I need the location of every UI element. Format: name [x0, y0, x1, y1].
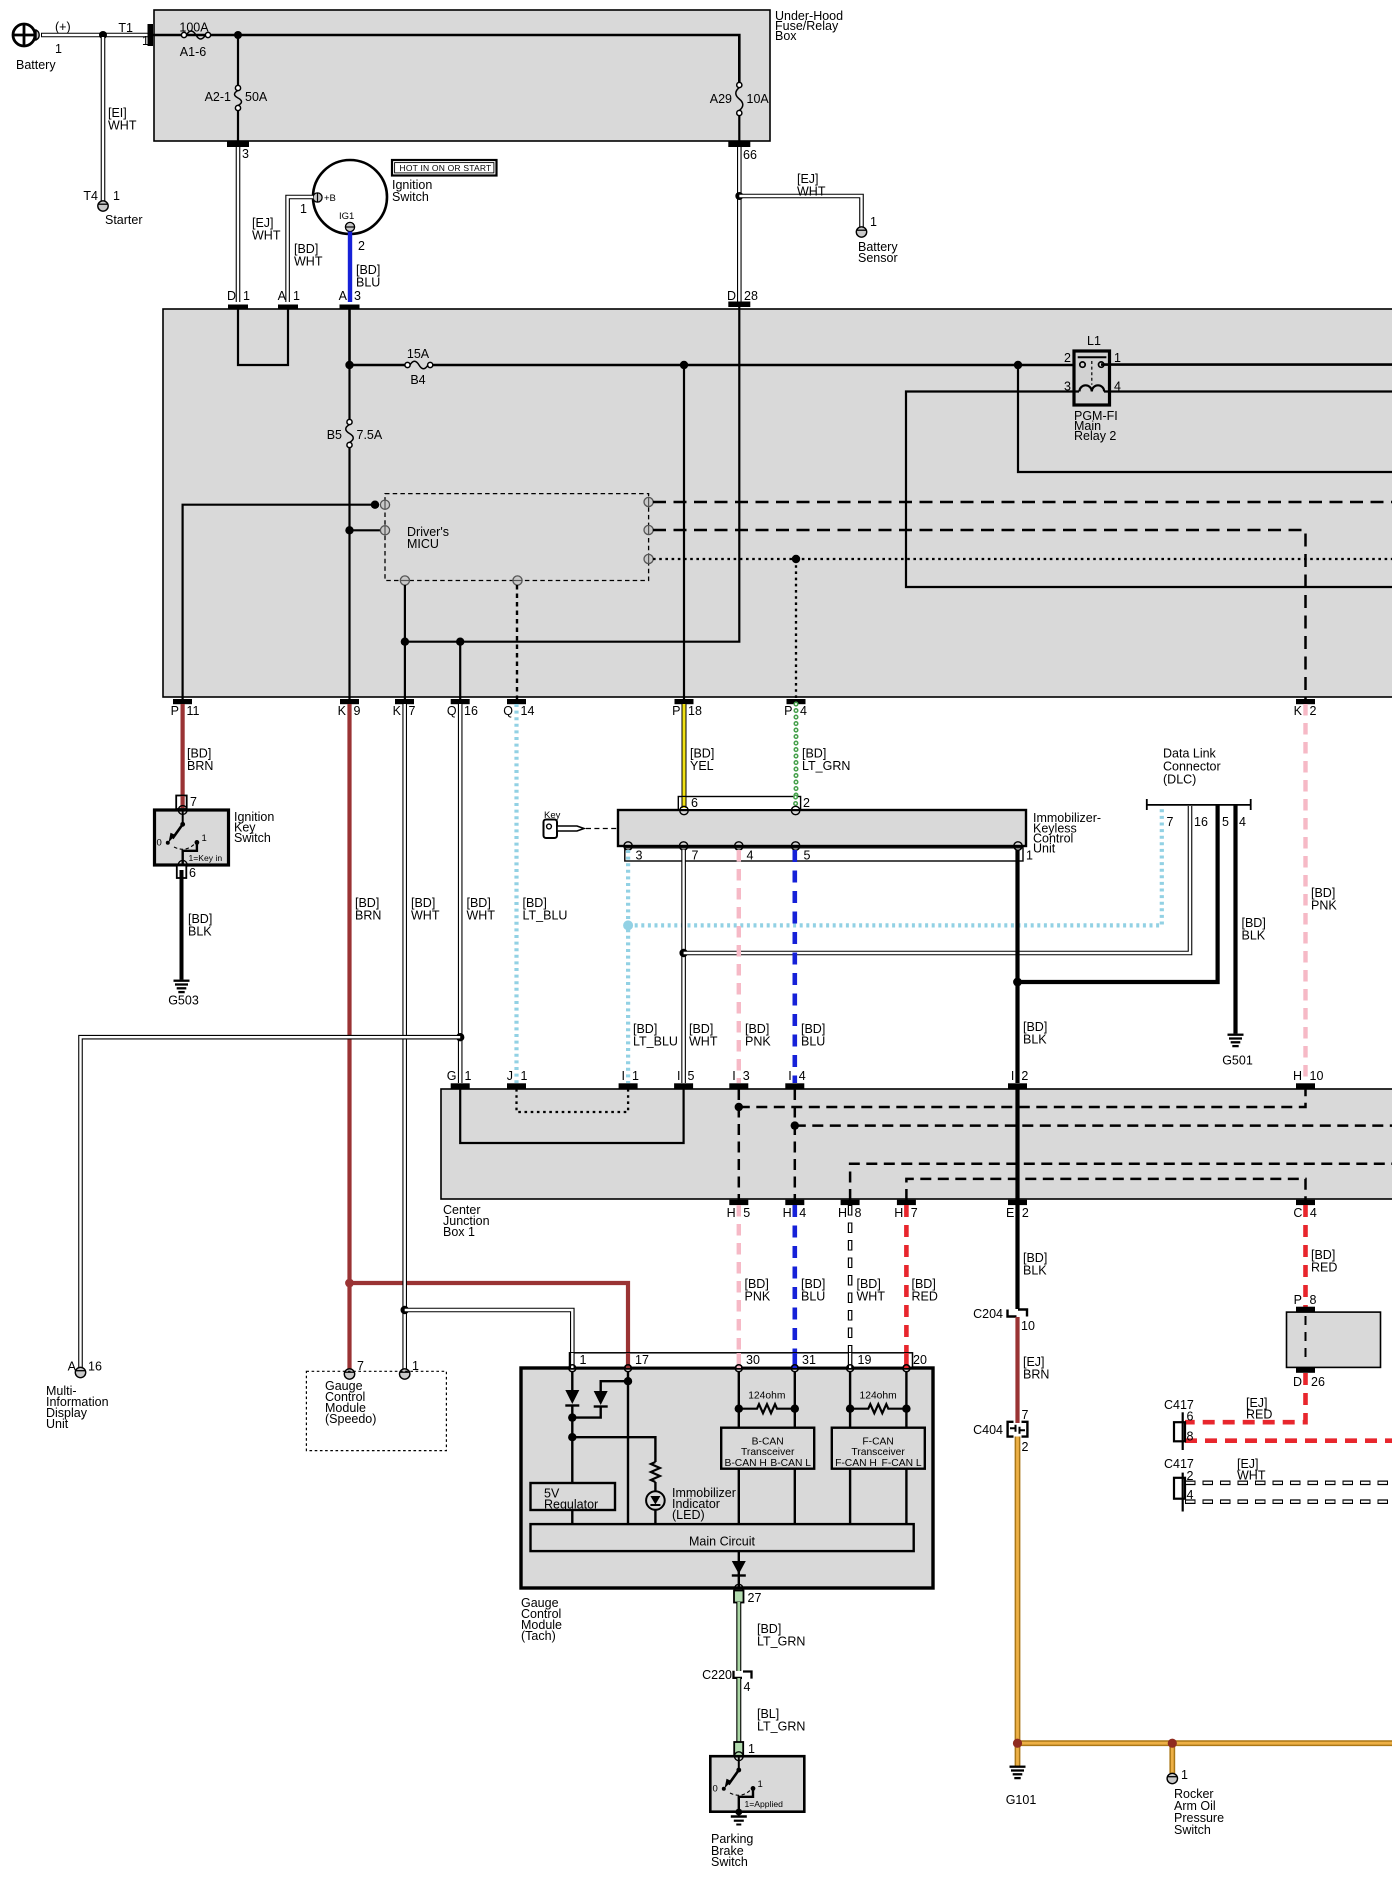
label [EJ] WHT (D1 wire): [252, 216, 281, 243]
MICU contact right 3: [644, 554, 653, 563]
svg-text:H: H: [838, 1206, 847, 1220]
svg-text:7: 7: [409, 704, 416, 718]
wire [EJ] BRN C204 to C404: [1018, 1317, 1050, 1423]
bus 15A row in box2: [350, 364, 1081, 367]
wire B-CAN L to main circuit: [794, 1469, 796, 1524]
relay L1 box: [1064, 334, 1121, 405]
svg-text:66: 66: [743, 148, 757, 162]
CJB internal dashed H7 to C4: [906, 1179, 1305, 1200]
key symbol: [544, 810, 585, 838]
svg-text:1: 1: [465, 1069, 472, 1083]
wire relay pin4 to right edge: [1104, 390, 1392, 392]
svg-text:10A: 10A: [747, 92, 770, 106]
dotted wire to P4: [795, 559, 797, 699]
wire [BD] WHT H8 to GCM pin19 (dashed white): [850, 1205, 885, 1368]
wire [EJ] RED C417 pin8 to right edge: [1185, 1438, 1392, 1443]
wire [BD] YEL P18 to immobilizer pin 6: [684, 704, 714, 797]
wire [BD] PNK H5 to GCM pin30: [739, 1205, 771, 1368]
svg-text:A1-6: A1-6: [180, 45, 206, 59]
svg-text:15A: 15A: [407, 347, 430, 361]
svg-text:11: 11: [187, 704, 200, 718]
MICU contact bottom 2: [513, 576, 522, 585]
gauge control module (tach) box: [521, 1368, 933, 1643]
svg-text:2: 2: [1022, 1206, 1029, 1220]
parking brake switch: [710, 1752, 804, 1812]
starter T4 terminal: [83, 189, 142, 227]
svg-text:+B: +B: [324, 193, 336, 204]
svg-text:6: 6: [189, 866, 196, 880]
connector H 8: [838, 1200, 862, 1220]
svg-text:100A: 100A: [179, 21, 209, 35]
wire [EJ] ORN C404 to G101: [1015, 1437, 1021, 1767]
hot in on or start box: [392, 160, 497, 176]
wire bus down through B5 fuse: [348, 365, 350, 419]
wire B-CAN H to main circuit: [738, 1469, 740, 1524]
main circuit box: [531, 1524, 914, 1551]
svg-text:RED: RED: [1246, 1408, 1272, 1422]
svg-text:19: 19: [858, 1353, 872, 1367]
GCM pin 17: [625, 1353, 649, 1372]
svg-text:BLU: BLU: [801, 1035, 825, 1049]
svg-text:BRN: BRN: [187, 759, 213, 773]
svg-text:7.5A: 7.5A: [357, 428, 383, 442]
GCM pin 1: [569, 1353, 587, 1372]
connector C417 (pins 2,4): [1164, 1457, 1194, 1511]
ignition switch: [313, 160, 432, 234]
svg-text:8: 8: [1187, 1429, 1194, 1443]
svg-text:B4: B4: [410, 373, 425, 387]
svg-text:1: 1: [142, 34, 149, 48]
5V regulator box: [531, 1483, 616, 1512]
svg-text:8: 8: [1310, 1293, 1317, 1307]
svg-text:PNK: PNK: [745, 1035, 771, 1049]
svg-text:P: P: [171, 704, 179, 718]
wire [BD] WHT immobilizer pin7 to I5: [684, 850, 718, 1083]
svg-text:8: 8: [855, 1206, 862, 1220]
svg-text:1: 1: [300, 202, 307, 216]
junction K7/D28 row: [401, 638, 409, 646]
wire [BD] BRN P11 to ignition key switch: [183, 704, 214, 796]
svg-text:C204: C204: [973, 1307, 1003, 1321]
junction pin17/diode2: [624, 1377, 632, 1385]
svg-text:LT_GRN: LT_GRN: [757, 1720, 805, 1734]
B-CAN transceiver box: [721, 1428, 814, 1469]
svg-text:4: 4: [799, 1069, 806, 1083]
svg-text:Box 1: Box 1: [443, 1225, 475, 1239]
svg-text:124ohm: 124ohm: [859, 1391, 896, 1402]
svg-text:WHT: WHT: [411, 909, 440, 923]
relay coil: [1079, 385, 1104, 391]
connector C220: [702, 1668, 751, 1694]
svg-text:K: K: [338, 704, 347, 718]
svg-text:Q: Q: [503, 704, 513, 718]
wire LT_BLU horizontal to DLC pin 7: [628, 805, 1162, 925]
svg-text:Box: Box: [775, 29, 797, 43]
svg-text:B-CAN H: B-CAN H: [725, 1458, 767, 1469]
svg-text:LT_GRN: LT_GRN: [757, 1635, 805, 1649]
immobilizer bottom connector strip: [625, 848, 1023, 861]
relay label: [1074, 409, 1118, 443]
diode D2: [594, 1391, 608, 1407]
fuse B5 7.5A: [327, 419, 383, 447]
GCM wire pin17 down: [627, 1372, 629, 1524]
svg-text:2: 2: [1310, 704, 1317, 718]
svg-text:1=Applied: 1=Applied: [745, 1799, 784, 1809]
immobilizer pin 1: [1014, 842, 1033, 863]
svg-text:6: 6: [691, 796, 698, 810]
svg-text:A: A: [339, 289, 348, 303]
svg-text:G501: G501: [1222, 1053, 1253, 1067]
svg-text:C404: C404: [973, 1423, 1003, 1437]
immobilizer pin 3: [624, 842, 643, 863]
connector I 1: [619, 1069, 639, 1089]
svg-text:4: 4: [800, 704, 807, 718]
connector H 10: [1293, 1069, 1323, 1089]
svg-text:27: 27: [748, 1591, 762, 1605]
wire A2-1 to connector 3: [237, 110, 239, 142]
svg-text:1=Key in: 1=Key in: [189, 853, 223, 863]
wire WHT to DLC pin 16: [684, 806, 1190, 953]
wire A3 down to bus: [348, 309, 351, 365]
diode D1 (pin1): [565, 1390, 579, 1406]
svg-text:1: 1: [293, 289, 300, 303]
CJB internal dashed branch to H10: [739, 1089, 1306, 1107]
svg-text:Battery: Battery: [16, 58, 56, 72]
svg-text:WHT: WHT: [252, 229, 281, 243]
svg-text:2: 2: [1021, 1069, 1028, 1083]
speedo pin 7 terminal: [344, 1359, 364, 1379]
svg-text:Starter: Starter: [105, 213, 143, 227]
svg-text:RED: RED: [1311, 1261, 1337, 1275]
parking brake switch ground: [731, 1809, 747, 1825]
svg-text:Switch: Switch: [711, 1855, 748, 1869]
svg-text:HOT IN ON OR START: HOT IN ON OR START: [400, 163, 492, 173]
connector H 5: [727, 1200, 751, 1220]
svg-text:2: 2: [803, 796, 810, 810]
junction orange G101: [1013, 1739, 1022, 1748]
svg-text:L1: L1: [1087, 334, 1101, 348]
svg-text:H: H: [783, 1206, 792, 1220]
svg-text:10: 10: [1021, 1319, 1035, 1333]
CJB internal dotted J1 to I1: [517, 1089, 629, 1112]
label [BD] BLU: [356, 263, 380, 290]
svg-text:1: 1: [243, 289, 250, 303]
label [EJ] WHT (battery sensor): [797, 172, 826, 199]
svg-text:4: 4: [1310, 1206, 1317, 1220]
svg-text:1: 1: [758, 1779, 763, 1790]
svg-text:7: 7: [1022, 1408, 1029, 1422]
svg-text:1: 1: [55, 42, 62, 56]
svg-text:1: 1: [632, 1069, 639, 1083]
svg-text:D: D: [727, 289, 736, 303]
connector T1: [118, 21, 153, 48]
wire B5 to K9: [348, 448, 350, 700]
battery: [13, 24, 56, 72]
svg-text:0: 0: [713, 1784, 718, 1795]
wire diode D1 bottom down: [571, 1406, 573, 1484]
svg-text:Transceiver: Transceiver: [741, 1447, 795, 1458]
svg-text:B-CAN: B-CAN: [752, 1437, 784, 1448]
CJB internal dashed H8 to right edge: [850, 1164, 1392, 1200]
svg-text:BLU: BLU: [356, 276, 380, 290]
connector Q 14: [503, 699, 534, 718]
wire F-CAN H to main circuit: [849, 1469, 851, 1524]
svg-text:LT_GRN: LT_GRN: [802, 759, 850, 773]
connector H 4: [783, 1200, 807, 1220]
svg-text:(LED): (LED): [672, 1508, 705, 1522]
svg-text:3: 3: [242, 147, 249, 161]
svg-text:I: I: [677, 1069, 680, 1083]
immobilizer top connector strip: [678, 797, 800, 810]
svg-text:Q: Q: [447, 704, 457, 718]
connector I 3: [729, 1069, 749, 1089]
svg-text:T4: T4: [83, 189, 98, 203]
svg-text:26: 26: [1311, 1375, 1325, 1389]
wire orange horizontal to right edge: [1018, 1740, 1392, 1746]
rocker arm oil pressure switch pin 1: [1167, 1768, 1188, 1784]
svg-text:K: K: [1294, 704, 1303, 718]
wire BLK to DLC pin 5: [1018, 805, 1218, 982]
junction at MICU contact 1: [371, 501, 379, 509]
ignition key switch: [155, 806, 275, 870]
wire [BD] BLK immobilizer pin1 to I2: [1018, 850, 1048, 1083]
immobilizer pin 5: [791, 842, 810, 863]
MICU contact right 2: [644, 525, 653, 534]
wire [BD] WHT K7 down: [405, 704, 440, 1369]
diode (main circuit out): [732, 1561, 746, 1576]
wire battery to T1 (double white): [41, 33, 150, 38]
svg-text:4: 4: [799, 1206, 806, 1220]
svg-text:I: I: [622, 1069, 625, 1083]
connector G 1: [447, 1069, 472, 1089]
wire diode D2 bottom to junction: [572, 1407, 600, 1418]
wire [BD] LT_BLU Q14 to J1: [517, 704, 568, 1083]
wire bus junction to P18: [683, 365, 685, 699]
svg-text:K: K: [393, 704, 402, 718]
GCM top connector strip: [570, 1353, 913, 1368]
svg-text:(DLC): (DLC): [1163, 773, 1196, 787]
ignition switch IG1 terminal: [339, 211, 355, 232]
connector C404: [973, 1408, 1028, 1454]
GCM pin 20: [903, 1353, 927, 1372]
svg-text:2: 2: [1022, 1440, 1029, 1454]
svg-text:0: 0: [157, 838, 162, 849]
wire bus branch down and right: [1018, 365, 1392, 472]
svg-text:5: 5: [1222, 815, 1229, 829]
wire bus to A2-1 fuse: [237, 35, 239, 85]
immobilizer pin 6: [680, 796, 698, 815]
wire to multi-information display: [81, 1037, 461, 1367]
junction Q16 branch: [456, 638, 464, 646]
svg-text:7: 7: [692, 849, 699, 863]
wire +B to A1 (double white): [288, 197, 313, 302]
svg-text:16: 16: [1194, 815, 1208, 829]
junction I3/H10 dashed: [735, 1103, 743, 1111]
svg-text:G503: G503: [168, 994, 199, 1008]
svg-text:H: H: [727, 1206, 736, 1220]
small module box right (P8-D26): [1287, 1312, 1381, 1367]
wire 3 to D1 (double white): [236, 147, 241, 302]
F-CAN 124ohm resistor: [846, 1391, 911, 1414]
GCM wire pin20 down: [905, 1372, 907, 1428]
svg-text:YEL: YEL: [690, 759, 714, 773]
wire WHT branch to GCM pin1: [405, 1310, 573, 1368]
fuse A2-1 50A: [205, 85, 268, 110]
junction dotted to P4: [792, 555, 800, 563]
wire [BD] BLK to G503: [182, 870, 213, 980]
parking brake switch pin 1: [734, 1742, 755, 1756]
svg-text:Regulator: Regulator: [544, 1498, 598, 1512]
svg-text:WHT: WHT: [1237, 1469, 1266, 1483]
center junction box 1: [441, 1089, 1392, 1239]
svg-text:BRN: BRN: [355, 909, 381, 923]
GCM pin 30: [735, 1353, 760, 1372]
svg-text:31: 31: [802, 1353, 816, 1367]
svg-text:7: 7: [1167, 815, 1174, 829]
svg-text:F-CAN L: F-CAN L: [882, 1458, 922, 1469]
connector C 4: [1293, 1200, 1317, 1220]
svg-text:H: H: [1293, 1069, 1302, 1083]
svg-text:I: I: [788, 1069, 791, 1083]
wire [BD] LT_GRN P4 to immobilizer pin 2: [796, 704, 850, 797]
GCM wire pin1 down: [571, 1372, 573, 1390]
svg-text:WHT: WHT: [294, 255, 323, 269]
wire F-CAN L to main circuit: [905, 1469, 907, 1524]
B-CAN 124ohm resistor: [735, 1391, 799, 1414]
svg-text:P: P: [672, 704, 680, 718]
wire [BD] LT_BLU immobilizer pin3 to I1: [628, 850, 678, 1083]
svg-text:6: 6: [1187, 1409, 1194, 1423]
CJB internal dashed branch right (I4): [795, 1124, 1392, 1127]
speedo pin 1 terminal: [400, 1359, 420, 1379]
multi-information display pin A 16: [68, 1360, 102, 1378]
svg-text:H: H: [894, 1206, 903, 1220]
wire main circuit to pin 27: [738, 1551, 740, 1588]
immobilizer pin 7: [679, 842, 698, 863]
fuse 100A A1-6: [179, 21, 210, 60]
svg-text:18: 18: [688, 704, 702, 718]
dashed link key to immobilizer: [586, 828, 617, 830]
svg-text:Switch: Switch: [392, 190, 429, 204]
svg-text:RED: RED: [912, 1290, 938, 1304]
svg-text:BLK: BLK: [1023, 1264, 1047, 1278]
svg-text:(Speedo): (Speedo): [325, 1412, 376, 1426]
svg-text:T1: T1: [118, 21, 133, 35]
svg-text:Switch: Switch: [1174, 1823, 1211, 1837]
svg-text:Switch: Switch: [234, 831, 271, 845]
connector P 18: [672, 699, 702, 718]
svg-text:WHT: WHT: [467, 909, 496, 923]
wire to starter (double white): [101, 35, 106, 201]
dashed MICU output 2 to K2: [653, 530, 1306, 699]
svg-text:50A: 50A: [245, 90, 268, 104]
immobilizer-keyless control unit box: [618, 810, 1101, 856]
junction orange rocker arm: [1168, 1739, 1177, 1748]
resistor (LED series): [651, 1462, 660, 1482]
svg-text:Transceiver: Transceiver: [851, 1447, 905, 1458]
junction bus/P18: [680, 361, 688, 369]
wire to LED resistor: [572, 1437, 655, 1462]
svg-text:P: P: [784, 704, 792, 718]
wire to battery sensor (double white): [739, 196, 861, 227]
svg-text:3: 3: [743, 1069, 750, 1083]
svg-text:MICU: MICU: [407, 537, 439, 551]
ground G101: [1006, 1767, 1037, 1807]
connector K 7: [393, 699, 416, 718]
connector I 5: [674, 1069, 694, 1089]
svg-text:BLK: BLK: [188, 925, 212, 939]
svg-text:D: D: [227, 289, 236, 303]
connector I 4: [785, 1069, 805, 1089]
svg-text:5: 5: [804, 849, 811, 863]
wire [BD] LT_GRN pin 27 to C220: [739, 1602, 806, 1671]
MICU contact bottom 1: [400, 576, 409, 585]
junction starter branch: [99, 31, 107, 39]
GCM wire pin30 down: [738, 1372, 740, 1428]
svg-text:BLK: BLK: [1023, 1033, 1047, 1047]
connector E 2: [1006, 1200, 1029, 1220]
svg-text:PNK: PNK: [745, 1290, 771, 1304]
junction BLK to DLC pin5: [1013, 978, 1022, 987]
svg-text:9: 9: [354, 704, 361, 718]
wire MICU bottom1 to K7: [404, 585, 406, 699]
svg-text:A29: A29: [710, 92, 732, 106]
svg-text:Relay 2: Relay 2: [1074, 429, 1116, 443]
wire relay pin1 to right edge: [1101, 363, 1392, 366]
svg-text:30: 30: [746, 1353, 760, 1367]
svg-text:I: I: [1011, 1069, 1014, 1083]
svg-text:D: D: [1293, 1375, 1302, 1389]
wire [BD] BRN K9 down: [350, 704, 382, 1369]
connector K 2: [1294, 699, 1317, 718]
immobilizer pin 2: [791, 796, 810, 815]
GCM wire pin19 down: [849, 1372, 851, 1428]
svg-text:1: 1: [870, 215, 877, 229]
svg-text:4: 4: [744, 1680, 751, 1694]
rocker arm oil pressure switch label: [1174, 1787, 1224, 1837]
svg-text:Sensor: Sensor: [858, 251, 898, 265]
svg-text:I: I: [732, 1069, 735, 1083]
connector P 8: [1294, 1293, 1317, 1312]
svg-text:LT_BLU: LT_BLU: [523, 909, 568, 923]
CJB internal BLK I2 to E2: [1015, 1089, 1019, 1200]
svg-text:BRN: BRN: [1023, 1368, 1049, 1382]
wire [BD] PNK immobilizer pin4 to I3: [739, 850, 772, 1083]
junction B5 wire to MICU pin: [345, 526, 353, 534]
dotted MICU output 3: [653, 558, 1392, 560]
svg-text:A2-1: A2-1: [205, 90, 231, 104]
wire A29 to connector 66: [738, 115, 740, 142]
connector H 7: [894, 1200, 918, 1220]
immobilizer pin 4: [735, 842, 754, 863]
svg-text:28: 28: [744, 289, 758, 303]
wire [BD] BLU H4 to GCM pin31: [795, 1205, 826, 1368]
svg-text:C220: C220: [702, 1668, 732, 1682]
label [EI] WHT: [108, 106, 137, 133]
ground G503: [168, 981, 199, 1008]
svg-text:7: 7: [190, 795, 197, 809]
svg-text:14: 14: [521, 704, 535, 718]
connector K 9: [338, 699, 361, 718]
svg-text:Connector: Connector: [1163, 760, 1221, 774]
wire [BD] BLU immobilizer pin5 to I4: [795, 850, 826, 1083]
connector P 11: [171, 699, 200, 718]
svg-text:G: G: [447, 1069, 457, 1083]
svg-text:7: 7: [911, 1206, 918, 1220]
wire [EJ] WHT C417 pin2 to right edge (dashed white): [1185, 1481, 1392, 1486]
driver's MICU dashed box: [385, 494, 649, 581]
junction LT_BLU to DLC: [623, 920, 633, 930]
